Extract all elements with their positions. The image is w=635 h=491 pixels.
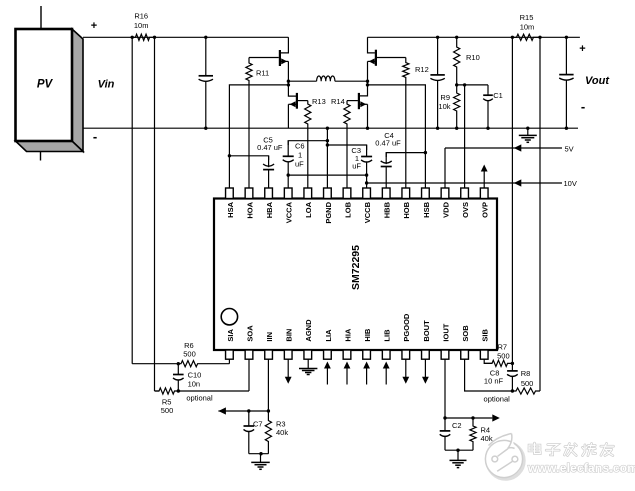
svg-text:SOA: SOA <box>245 325 254 342</box>
PV panel body <box>16 29 73 141</box>
svg-text:uF: uF <box>352 161 361 170</box>
node Q4 source-bus <box>366 127 369 130</box>
svg-text:OVP: OVP <box>481 202 490 218</box>
capacitor input <box>199 36 213 130</box>
resistor R5 <box>155 388 181 415</box>
wire ground bus <box>83 127 578 129</box>
ground output <box>519 127 537 143</box>
svg-text:BIN: BIN <box>285 329 294 342</box>
wire VCCA-VCCB tie <box>287 173 369 176</box>
svg-text:R10: R10 <box>466 53 480 62</box>
svg-text:HOA: HOA <box>245 201 254 218</box>
transistor Q3 <box>288 85 307 128</box>
capacitor C4 <box>375 131 401 188</box>
svg-text:LIA: LIA <box>324 329 333 342</box>
wire C3 jog <box>326 143 367 150</box>
resistor R13 <box>305 97 326 188</box>
U1 top pin boxes <box>226 188 489 199</box>
arrow LIB <box>383 362 390 385</box>
wire Vin+ rail <box>83 36 288 38</box>
arrow HIA <box>344 362 351 385</box>
wire AOUT arrow line <box>445 417 492 419</box>
svg-text:HIB: HIB <box>363 328 372 342</box>
svg-text:C1: C1 <box>493 91 503 100</box>
U1 pin1 marker circle <box>221 309 237 325</box>
svg-text:IOUT: IOUT <box>441 323 450 341</box>
resistor R10 <box>454 36 480 87</box>
svg-text:10n: 10n <box>188 380 201 389</box>
svg-text:optional: optional <box>186 394 213 403</box>
svg-text:5V: 5V <box>565 145 574 154</box>
svg-text:R15: R15 <box>520 13 534 22</box>
transistor Q4 <box>347 85 368 128</box>
svg-text:SIA: SIA <box>226 329 235 342</box>
op-amp U1 SM72295 body <box>214 199 497 351</box>
node HSA-C5 tap <box>228 154 231 157</box>
capacitor Cout <box>559 36 573 130</box>
wire R6 row <box>132 363 178 365</box>
arrow HIB <box>363 362 370 385</box>
wire C6 jog <box>288 139 329 145</box>
svg-text:10m: 10m <box>520 23 535 32</box>
svg-text:SOB: SOB <box>461 325 470 342</box>
svg-text:BOUT: BOUT <box>422 320 431 342</box>
wire SIA stub <box>228 359 230 364</box>
svg-text:IIN: IIN <box>265 332 274 342</box>
svg-text:HIA: HIA <box>343 328 352 342</box>
resistor R12 <box>403 58 429 189</box>
watermark url text <box>527 461 635 475</box>
svg-text:R11: R11 <box>256 69 269 78</box>
label Vin <box>98 79 115 91</box>
capacitor output filter <box>430 36 444 130</box>
resistor R8 <box>512 369 540 394</box>
svg-text:R7: R7 <box>498 343 508 352</box>
svg-text:C7: C7 <box>253 420 263 429</box>
svg-text:Vout: Vout <box>585 75 610 87</box>
watermark chinese text <box>529 443 614 456</box>
arrow BIN <box>285 359 292 384</box>
svg-text:HSA: HSA <box>226 201 235 217</box>
wire SOB stub <box>465 359 513 391</box>
wire 10V line <box>365 181 562 184</box>
svg-text:LOB: LOB <box>343 201 352 217</box>
label R14 <box>331 97 345 106</box>
capacitor C5 <box>257 136 283 188</box>
transistor Q1 <box>249 37 288 81</box>
svg-text:www.elecfans.com: www.elecfans.com <box>527 461 635 475</box>
svg-text:HOB: HOB <box>402 201 411 218</box>
svg-text:-: - <box>581 99 585 114</box>
svg-text:PV: PV <box>37 79 54 91</box>
resistor R3 <box>265 411 288 454</box>
capacitor C8 <box>484 363 518 392</box>
ground C7/R3 <box>251 454 270 470</box>
svg-text:R9: R9 <box>440 93 450 102</box>
svg-text:VCCB: VCCB <box>363 201 372 223</box>
U1 top pin labels <box>226 201 490 223</box>
resistor R9 <box>438 85 459 130</box>
arrow LIA <box>324 362 331 385</box>
wire HSA tie <box>229 85 288 188</box>
svg-text:R8: R8 <box>521 369 531 378</box>
label optional right <box>484 395 511 404</box>
U1 bottom pin labels <box>226 313 490 342</box>
svg-text:10 nF: 10 nF <box>484 376 504 385</box>
svg-text:500: 500 <box>497 352 510 361</box>
capacitor C2 <box>440 418 462 450</box>
U1 bottom pin boxes <box>226 350 489 359</box>
capacitor C7 <box>244 409 263 453</box>
svg-text:SM72295: SM72295 <box>350 245 362 290</box>
svg-text:-: - <box>93 129 97 144</box>
svg-text:VCCA: VCCA <box>285 201 294 223</box>
svg-text:+: + <box>91 20 97 32</box>
capacitor C10 <box>173 364 201 393</box>
capacitor C1 <box>483 85 503 130</box>
arrow OVP <box>481 165 488 189</box>
label 5V <box>565 145 574 154</box>
capacitor C3 <box>351 145 372 188</box>
svg-text:R12: R12 <box>415 65 429 74</box>
svg-text:R14: R14 <box>331 97 345 106</box>
svg-text:AGND: AGND <box>304 319 313 342</box>
wire SIB stub <box>484 359 492 363</box>
label Vin - <box>93 129 97 144</box>
label optional left <box>186 394 213 403</box>
svg-text:10V: 10V <box>564 179 577 188</box>
svg-text:PGOOD: PGOOD <box>402 313 411 342</box>
wire AIN arrow line <box>218 410 268 412</box>
wire output rail <box>368 36 580 38</box>
PV panel 3d side face <box>72 29 83 152</box>
node OVS tap <box>463 83 466 86</box>
node HSB-C4 tap <box>424 151 427 154</box>
node SWB junction <box>366 80 369 87</box>
svg-text:+: + <box>579 43 585 55</box>
ground AGND <box>299 359 317 374</box>
wire SOA stub <box>248 359 250 391</box>
svg-text:0.47 uF: 0.47 uF <box>257 143 283 152</box>
svg-text:LOA: LOA <box>304 201 313 217</box>
arrow PGOOD <box>402 359 409 384</box>
wire C2-R4 bottom <box>445 449 473 452</box>
PV panel 3d bottom face <box>16 141 84 152</box>
svg-text:HBB: HBB <box>383 201 392 218</box>
svg-text:C6: C6 <box>295 142 305 151</box>
svg-text:uF: uF <box>295 160 304 169</box>
wire R5-SOA <box>178 390 249 392</box>
resistor R11 <box>246 58 269 189</box>
ground C2/R4 <box>450 450 467 467</box>
svg-text:LIB: LIB <box>383 329 392 342</box>
arrow AOUT <box>492 414 500 421</box>
wire OVS drop <box>464 85 466 188</box>
wire 5V line <box>445 148 562 188</box>
inductor L1 <box>288 76 367 81</box>
arrow AIN <box>218 407 226 414</box>
watermark elecfans logo <box>485 434 524 480</box>
label Vout <box>585 75 610 87</box>
resistor R6 <box>177 341 230 367</box>
wire PGND riser <box>326 127 329 189</box>
svg-text:HBA: HBA <box>265 201 274 218</box>
resistor R15 <box>511 13 542 40</box>
svg-text:0.47 uF: 0.47 uF <box>375 139 401 148</box>
resistor R7 <box>484 343 514 367</box>
label Vout - <box>581 99 585 114</box>
svg-text:SIB: SIB <box>481 329 490 342</box>
wire C7-R3 bottom <box>249 452 269 455</box>
svg-text:R13: R13 <box>312 97 326 106</box>
wire IOUT drop <box>443 359 446 419</box>
arrow BOUT <box>422 359 429 384</box>
svg-text:40k: 40k <box>276 428 288 437</box>
svg-text:500: 500 <box>183 350 196 359</box>
wire IIN drop <box>267 359 270 412</box>
label 10V <box>564 179 577 188</box>
svg-text:HSB: HSB <box>422 201 431 217</box>
wire R9-C1 <box>457 84 488 86</box>
wire sense SIB drop <box>511 37 513 363</box>
wire HSB tie <box>368 85 426 188</box>
wire C4 jog <box>386 153 425 157</box>
node SWA junction <box>287 80 290 87</box>
svg-text:R16: R16 <box>134 12 148 21</box>
PV panel top terminal <box>40 6 42 29</box>
svg-text:10m: 10m <box>134 21 149 30</box>
label Vout + <box>579 43 585 55</box>
svg-text:40k: 40k <box>481 434 493 443</box>
svg-text:Vin: Vin <box>98 79 115 91</box>
arrow 10V <box>514 179 522 186</box>
svg-text:C10: C10 <box>188 371 202 380</box>
svg-text:PGND: PGND <box>324 201 333 223</box>
svg-text:500: 500 <box>161 406 174 415</box>
wire C5 jog <box>229 156 268 160</box>
svg-text:C2: C2 <box>452 421 462 430</box>
resistor R4 <box>470 416 493 450</box>
capacitor C6 <box>283 141 305 188</box>
arrow 5V <box>514 144 522 151</box>
label Vin + <box>91 20 97 32</box>
resistor R14 <box>344 101 350 188</box>
svg-text:1: 1 <box>298 151 302 160</box>
svg-text:500: 500 <box>521 379 534 388</box>
wire sense SOB drop <box>539 37 541 391</box>
svg-text:OVS: OVS <box>461 202 470 218</box>
svg-text:optional: optional <box>484 395 511 404</box>
svg-text:10k: 10k <box>438 102 450 111</box>
transistor Q2 <box>368 37 406 81</box>
wire R5 row entry <box>155 390 160 392</box>
PV panel bottom terminal <box>40 152 42 161</box>
wire sense SOA drop <box>154 37 156 391</box>
resistor R16 <box>131 12 157 41</box>
svg-text:VDD: VDD <box>441 201 450 217</box>
wire sense SIA drop <box>131 37 133 363</box>
label SM72295 <box>350 245 362 290</box>
